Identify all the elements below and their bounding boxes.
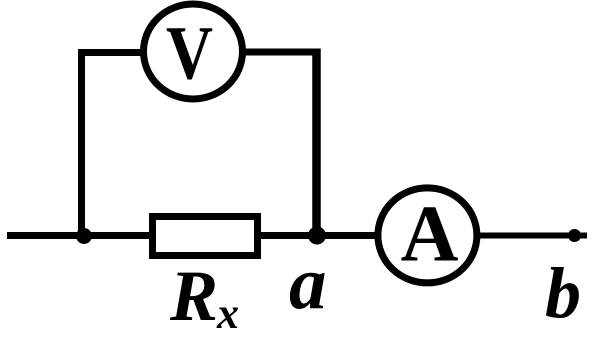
node label b	[545, 253, 581, 333]
terminal dot at b	[568, 229, 581, 242]
wire: top-right horizontal from voltmeter	[244, 49, 320, 56]
wire: segment between resistor and ammeter	[261, 232, 378, 239]
label Rx	[169, 256, 239, 338]
svg-text:V: V	[166, 12, 213, 96]
svg-text:b: b	[545, 253, 581, 333]
svg-text:R: R	[169, 256, 218, 336]
node a junction dot	[308, 227, 326, 245]
wire: top-left horizontal to voltmeter	[78, 49, 143, 56]
voltmeter V	[144, 4, 243, 99]
junction dot at left node	[76, 228, 92, 244]
wire: right segment from ammeter to terminal b	[480, 233, 587, 239]
wire: main left segment from left end to resistor	[7, 232, 153, 239]
svg-text:x: x	[216, 289, 239, 338]
svg-text:A: A	[401, 191, 459, 279]
wire: right vertical branch down to node a	[312, 49, 321, 237]
svg-text:a: a	[289, 242, 327, 325]
node label a	[289, 242, 327, 325]
wire: left vertical branch to voltmeter	[78, 53, 85, 237]
resistor Rx	[153, 217, 258, 256]
ammeter A	[378, 188, 477, 283]
